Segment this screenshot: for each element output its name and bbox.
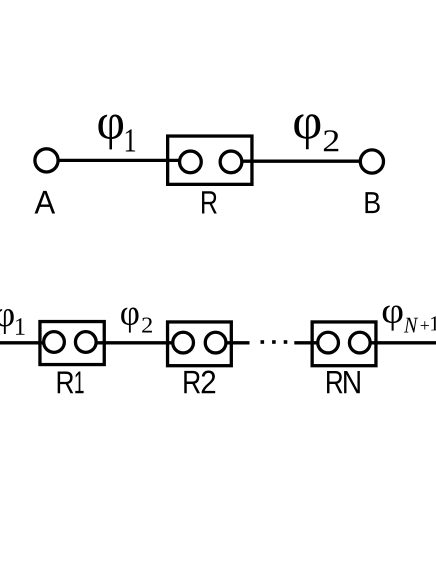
- terminal label A: [35, 191, 56, 214]
- resistor R1 left contact circle: [44, 332, 65, 353]
- resistor R right contact circle: [220, 151, 242, 173]
- wire R1 to R2: [86, 341, 183, 344]
- resistor RN body: [312, 322, 376, 366]
- resistor RN left contact circle: [318, 332, 339, 353]
- resistor R1 right contact circle: [75, 332, 96, 353]
- wire resistor R right contact to B: [231, 160, 372, 163]
- wire left edge to R1: [0, 341, 54, 344]
- node label phi_2: [121, 308, 138, 333]
- terminal label B: [365, 192, 379, 213]
- node label phi_1 (left, clipped): [0, 309, 14, 334]
- node label phi_N+1 (right, clipped): [383, 305, 403, 330]
- resistor label R1: [58, 371, 74, 393]
- wire A to resistor R left contact: [47, 159, 191, 162]
- resistor label RN: [327, 371, 342, 393]
- terminal B: [360, 150, 383, 173]
- wire dots to RN: [294, 341, 328, 344]
- ellipsis dot 3: [284, 340, 288, 344]
- resistor R1 body: [40, 322, 104, 365]
- resistor R body: [168, 136, 252, 184]
- terminal A: [35, 149, 58, 172]
- resistor R left contact circle: [180, 151, 202, 173]
- ellipsis dot 1: [261, 340, 265, 344]
- resistor R2 body: [168, 322, 232, 366]
- resistor RN right contact circle: [349, 332, 370, 353]
- resistor label R: [202, 191, 217, 213]
- resistor R2 left contact circle: [173, 332, 194, 353]
- node label phi_2: [294, 114, 320, 149]
- wire R2 to dots: [216, 341, 250, 344]
- ellipsis dot 2: [272, 340, 276, 344]
- resistor label R2: [184, 371, 200, 393]
- node label phi_1: [98, 115, 123, 150]
- resistor R2 right contact circle: [205, 332, 226, 353]
- wire RN to right edge: [360, 341, 436, 344]
